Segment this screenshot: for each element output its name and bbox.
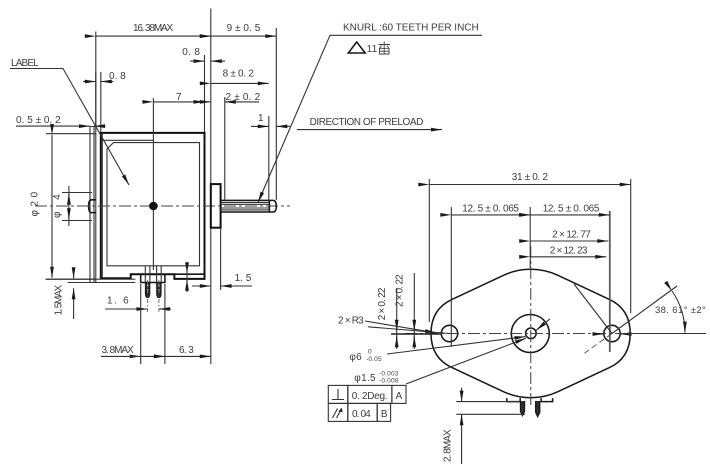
extension line right hole	[609, 211, 611, 352]
dimension 1	[251, 125, 269, 127]
center shaft circle	[526, 328, 537, 339]
label wrap bottom lines	[46, 279, 136, 282]
dimension 31 +-0.2	[429, 184, 630, 186]
svg-text:0. 2Deg.: 0. 2Deg.	[352, 391, 388, 402]
perpendicularity symbol	[332, 389, 344, 400]
extension line 12.5 left	[450, 207, 452, 347]
svg-text:-0.008: -0.008	[379, 378, 399, 385]
svg-text:2 × 0. 22: 2 × 0. 22	[377, 287, 388, 320]
dimension 0.8 left	[83, 81, 96, 83]
right hole arrows	[595, 333, 604, 335]
svg-text:LABEL: LABEL	[11, 58, 39, 69]
dimension 2x12.77	[530, 240, 608, 242]
extension line 2mm	[224, 97, 226, 200]
svg-text:B: B	[381, 409, 388, 420]
dimension phi4	[62, 193, 92, 221]
motor body inner rectangle	[107, 143, 200, 266]
dimension 12.5 right	[530, 214, 610, 216]
svg-text:2 × 12. 23: 2 × 12. 23	[550, 246, 588, 257]
inclined hole axis line	[368, 327, 450, 334]
dimension phi20	[46, 134, 96, 280]
label wrap left lines	[90, 32, 96, 283]
dimension 2x0.22 second	[413, 273, 415, 349]
runout symbol	[333, 409, 342, 419]
dimension 2 +-0.2	[205, 101, 211, 103]
svg-text:DIRECTION OF PRELOAD: DIRECTION OF PRELOAD	[310, 117, 424, 128]
svg-text:φ1.5: φ1.5	[354, 373, 376, 384]
dimension 2x0.22 first	[396, 288, 398, 349]
svg-text:2. 8MAX: 2. 8MAX	[443, 429, 454, 462]
left mounting hole	[441, 325, 457, 341]
svg-text:0. 8: 0. 8	[109, 71, 126, 82]
dimension 16.38MAX	[96, 35, 211, 37]
face pin right	[536, 401, 540, 416]
tooth CJK glyph drawn	[379, 42, 391, 55]
svg-text:1. 5MAX: 1. 5MAX	[54, 284, 65, 315]
shaft tip	[269, 200, 276, 212]
dimension 8 +-0.2	[211, 82, 269, 84]
connector housing left view	[141, 274, 165, 282]
svg-text:12. 5 ± 0. 065: 12. 5 ± 0. 065	[462, 203, 519, 214]
bushing face extension line	[220, 228, 222, 290]
dimension 9 +-0.5	[211, 35, 276, 37]
svg-text:2 ± 0. 2: 2 ± 0. 2	[226, 92, 261, 103]
svg-text:φ6: φ6	[349, 352, 362, 363]
svg-text:9 ± 0. 5: 9 ± 0. 5	[227, 23, 261, 34]
extension line 31 right	[630, 179, 632, 313]
extension lines 0.8 left	[96, 72, 101, 132]
dimension 2x12.23	[530, 256, 606, 258]
svg-text:0. 8: 0. 8	[182, 47, 200, 58]
38.61 dashed extension	[585, 334, 613, 354]
svg-text:6. 3: 6. 3	[179, 345, 194, 356]
svg-text:KNURL :60 TEETH PER INCH: KNURL :60 TEETH PER INCH	[343, 23, 479, 34]
warning triangle	[348, 42, 365, 53]
svg-text:1. 5: 1. 5	[235, 273, 252, 284]
svg-text:1. 6: 1. 6	[107, 296, 129, 307]
extension lines 3.8MAX / 6.3	[141, 284, 165, 364]
dimension 1.5MAX	[73, 268, 75, 278]
pin centerlines	[147, 280, 149, 312]
face pin left	[521, 401, 525, 415]
dimension 7	[153, 101, 204, 103]
svg-text:2 × 0. 22: 2 × 0. 22	[394, 274, 405, 307]
dimension 6.3	[165, 355, 211, 357]
center pilot circle	[511, 315, 549, 353]
svg-text:31 ± 0. 2: 31 ± 0. 2	[512, 172, 549, 183]
svg-text:1: 1	[258, 113, 264, 124]
rear boss	[89, 200, 96, 213]
svg-text:8 ± 0. 2: 8 ± 0. 2	[223, 69, 255, 80]
svg-text:2 × R3: 2 × R3	[338, 316, 364, 327]
face connector shoulders	[507, 398, 553, 402]
extension line shaft tip	[275, 28, 277, 200]
dimension 3.8MAX	[141, 355, 165, 357]
center extension line	[529, 207, 531, 268]
svg-text:16. 38MAX: 16. 38MAX	[133, 23, 174, 34]
extension line body right edge top	[204, 55, 206, 132]
svg-text:A: A	[396, 391, 403, 402]
extension line knurl end	[268, 116, 270, 200]
mounting flange face line	[210, 9, 212, 365]
feature frame row2	[328, 403, 390, 421]
svg-text:11: 11	[367, 44, 378, 55]
body vertical center line	[152, 98, 154, 270]
face body outline	[431, 269, 630, 397]
svg-text:0. 5 ± 0. 2: 0. 5 ± 0. 2	[16, 115, 61, 126]
angle arc	[672, 291, 685, 333]
horizontal centerline left view	[35, 205, 290, 207]
plate thickness dimension arrows	[186, 263, 188, 293]
pin lines into body	[145, 266, 161, 283]
extension line 31 left	[428, 179, 430, 322]
dimension 0.5 +-0.2	[76, 125, 90, 127]
pin 2	[157, 282, 162, 297]
svg-text:7: 7	[176, 92, 182, 103]
dimension 2.8MAX ref lines	[456, 402, 525, 415]
vertical centerline face	[530, 246, 532, 407]
right mounting hole	[604, 325, 620, 341]
motor body outline with stepped bottom	[101, 133, 205, 279]
horizontal centerline face	[405, 333, 706, 335]
svg-text:0: 0	[368, 349, 372, 356]
motor body inner top line	[101, 139, 154, 141]
dimension 12.5 left	[451, 214, 530, 216]
body wall inner line	[101, 134, 103, 278]
end bell plate line	[174, 273, 204, 275]
right hole NW diagonal	[574, 284, 612, 334]
dimension 1.5 bushing	[192, 285, 211, 287]
dimension 2.8MAX	[461, 388, 463, 402]
svg-text:0. 04: 0. 04	[352, 409, 371, 420]
svg-text:-0.003: -0.003	[379, 371, 399, 378]
dimension 0.8 top center	[190, 60, 205, 62]
shaft knurled section	[221, 200, 270, 212]
dimension 1.6	[105, 308, 147, 310]
bushing	[211, 184, 221, 228]
knurl lines	[221, 202, 270, 210]
center dot	[149, 202, 158, 211]
svg-text:3. 8MAX: 3. 8MAX	[102, 345, 135, 356]
svg-text:38. 61° ±2°: 38. 61° ±2°	[655, 305, 706, 316]
svg-text:2 × 12. 77: 2 × 12. 77	[552, 230, 591, 241]
svg-text:φ20: φ20	[30, 191, 41, 216]
svg-text:12. 5 ± 0. 065: 12. 5 ± 0. 065	[543, 203, 600, 214]
38.61 line	[612, 286, 677, 334]
small circle upper arrow	[536, 319, 550, 331]
feature frame row1	[328, 385, 406, 403]
horizontal line right of hole	[621, 333, 706, 335]
hole axis thick segment	[391, 333, 441, 335]
svg-text:-0.05: -0.05	[366, 356, 382, 363]
pin 1	[145, 282, 150, 297]
